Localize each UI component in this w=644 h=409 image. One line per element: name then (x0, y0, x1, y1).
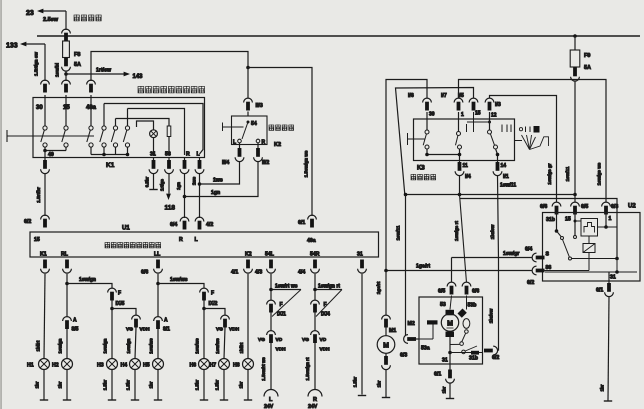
connector 6/6 at wiper 53b (462, 282, 471, 286)
connector above fuse F8 (62, 29, 71, 33)
svg-text:1bl/rt: 1bl/rt (36, 340, 41, 351)
wire 1bl/rt U1-K2 to lamp H8 (247, 274, 249, 359)
connector 4/2 at U1 terminal L (195, 217, 204, 221)
K1 pole 30 (44, 95, 46, 126)
svg-text:1.5br: 1.5br (215, 379, 220, 390)
svg-text:4/2: 4/2 (206, 222, 213, 228)
svg-text:A: A (164, 318, 168, 324)
hazard flasher switch label (CJK) (138, 86, 144, 93)
K3 label (CJK) (411, 174, 416, 180)
K3 actuator hook (407, 133, 409, 145)
wire 54R (314, 313, 316, 332)
wire U2 internal feed from I/4 net (460, 199, 617, 259)
svg-text:M: M (447, 321, 453, 328)
fuse F9 bottom connector (573, 68, 577, 77)
svg-text:L: L (197, 152, 201, 158)
svg-text:23: 23 (26, 10, 34, 17)
wire 53a from supply loop to wiper (405, 195, 407, 336)
svg-text:K2: K2 (245, 252, 252, 258)
svg-text:VDH: VDH (276, 347, 287, 353)
svg-text:6/2: 6/2 (492, 355, 499, 361)
wire K3 I/5 supply loop (396, 88, 576, 195)
svg-text:R: R (262, 140, 266, 146)
svg-text:31b: 31b (469, 356, 478, 362)
svg-text:1.5sw/rt ws: 1.5sw/rt ws (261, 357, 266, 381)
svg-text:1sw/bl: 1sw/bl (55, 63, 60, 77)
svg-text:1bl/rt: 1bl/rt (239, 342, 244, 353)
light switch label (CJK) (74, 15, 79, 21)
svg-text:1sw/ge rt: 1sw/ge rt (454, 221, 459, 241)
connector F IX/4 (311, 300, 320, 304)
junction M1 tap (384, 269, 388, 273)
washer switch contacts right of K3 (519, 128, 522, 131)
svg-text:F: F (118, 291, 121, 297)
wire 1sw/gn to lamp H4 (135, 328, 136, 359)
svg-text:I/3: I/3 (495, 102, 501, 108)
switch K2 box (247, 112, 249, 117)
wire 49a feed from bus to K1/K2/U1 (91, 52, 248, 82)
K3 pole I/4 (458, 112, 460, 132)
connector below U1 RL (65, 260, 69, 269)
branch wire 1sw/ws to F IX/2 (158, 284, 204, 289)
svg-text:6/1: 6/1 (298, 220, 305, 226)
svg-text:1: 1 (609, 216, 612, 222)
svg-text:49a: 49a (307, 238, 316, 244)
K2 terminal 54 (247, 121, 250, 124)
svg-text:1sw/ge gr: 1sw/ge gr (547, 163, 552, 184)
wire 1sw/gn U1-RL down (66, 274, 68, 317)
connector VG/VDH at H7 (221, 315, 230, 319)
K1 actuator hook (6, 130, 8, 142)
connector 6/6 below U1 LL (156, 260, 160, 269)
junction 54R branch (313, 288, 317, 292)
wire 54L (270, 313, 272, 332)
svg-text:L: L (195, 237, 199, 243)
junction LL branch (156, 282, 160, 286)
trailer socket L 24V (264, 390, 278, 397)
K1 internal wire to L (104, 104, 203, 155)
wire 1.5sw/gn-rt to trailer socket R (314, 343, 316, 389)
wire 1ws K1-L down (199, 174, 201, 218)
connector I/6 above K3 (423, 98, 432, 102)
svg-text:1sw/gn: 1sw/gn (103, 338, 108, 353)
U2 relay coil (583, 244, 595, 253)
svg-text:133: 133 (6, 43, 18, 50)
connector 4/4 below U1 54R (313, 260, 317, 269)
wire 1br below H2 (66, 369, 68, 399)
svg-text:58: 58 (165, 152, 171, 158)
K2 contact L (238, 139, 242, 143)
trailer socket R 24V (308, 390, 322, 397)
K1 pole 15 (65, 95, 67, 126)
U2 breaker output to terminal 1 wire (598, 226, 618, 228)
connector 6/3 at U2 (602, 202, 611, 206)
svg-text:4/1: 4/1 (231, 270, 238, 276)
connector below M1 (385, 353, 387, 356)
junction to H7 branch (202, 307, 206, 311)
lamp H5 (153, 359, 164, 370)
wire below F IX/2 (203, 301, 205, 359)
connector below U1 31 (360, 260, 364, 269)
branch wire to H4 (112, 309, 136, 316)
wire 1sw/gn to lamp H2 (66, 329, 68, 359)
svg-text:M1: M1 (389, 328, 396, 334)
svg-text:1.5br: 1.5br (195, 379, 200, 390)
wire I/4 to wiper 53b (459, 176, 461, 195)
junction node R/1gn (183, 195, 187, 199)
wire K3 I/7 to U2 6/3 (459, 80, 607, 203)
connector below K1 terminal L (199, 158, 201, 161)
junction to H4 branch (110, 307, 114, 311)
svg-text:1sw/gn: 1sw/gn (79, 277, 96, 283)
wiper park cam (463, 319, 470, 329)
svg-text:1.5br: 1.5br (126, 379, 131, 390)
wire 1.5br below H6 (203, 369, 205, 399)
svg-text:1sw/11: 1sw/11 (500, 183, 516, 189)
wire 0.5br from K1-31 (153, 174, 155, 189)
svg-text:24V: 24V (308, 404, 318, 409)
K1 wire 49 down (44, 151, 46, 161)
svg-text:VD: VD (276, 337, 283, 343)
lamp H1 (39, 359, 50, 370)
connector K1 terminal 49a (87, 80, 96, 84)
svg-text:6/5: 6/5 (581, 204, 588, 210)
connector VG/VDH at H4 (132, 315, 141, 319)
svg-text:F: F (324, 302, 327, 308)
svg-text:K2: K2 (274, 142, 281, 148)
svg-text:H6: H6 (190, 363, 197, 369)
K1 internal wire to R (128, 109, 185, 156)
svg-text:H4: H4 (121, 363, 128, 369)
svg-text:118: 118 (165, 205, 176, 212)
junction 53a branch (404, 193, 408, 197)
svg-text:U1: U1 (122, 226, 130, 232)
svg-text:H5: H5 (143, 363, 150, 369)
junction 54L branch (269, 288, 273, 292)
svg-text:I/4: I/4 (465, 174, 471, 180)
svg-text:1ws: 1ws (213, 178, 223, 184)
svg-text:143: 143 (133, 74, 144, 80)
connector VG/VD VDH on 54R (311, 331, 320, 335)
end of wire K1-31 (149, 189, 157, 191)
svg-text:H7: H7 (210, 363, 217, 369)
branch wire 1sw/rt-ws with splice diagonal (271, 289, 301, 291)
wiper motor M2 box (419, 297, 483, 364)
svg-text:5A: 5A (74, 62, 81, 68)
connector K1 terminal 15 (62, 80, 71, 84)
svg-text:1sw/11: 1sw/11 (565, 166, 570, 181)
wire 1.5br U1-31 to ground (361, 274, 363, 395)
wire U1-54R down (314, 274, 316, 301)
K1 internal wire to resistor (116, 119, 170, 127)
wire 1sw/gr U2-S to wiper 53 (452, 257, 533, 259)
wire 1br below H5 (157, 369, 159, 399)
junction F9 wire / K3 supply loop (573, 193, 577, 197)
svg-text:14: 14 (501, 163, 507, 169)
svg-text:1ws: 1ws (192, 176, 197, 185)
K2 blade (242, 122, 248, 139)
svg-text:M2: M2 (408, 321, 415, 327)
connector 6/2 at U1 terminal 15 (41, 215, 50, 219)
wire 1.5br below H7 (223, 369, 225, 399)
svg-text:8/5: 8/5 (72, 327, 79, 333)
svg-text:H1: H1 (27, 363, 34, 369)
connector I/7 above K3 (454, 98, 463, 102)
K3 stationary contacts mid (466, 124, 468, 132)
resistor in K1 (167, 126, 171, 137)
svg-text:H3: H3 (97, 363, 104, 369)
svg-text:1br/sw: 1br/sw (489, 308, 494, 323)
svg-text:VD: VD (320, 337, 327, 343)
svg-text:1sw/ws: 1sw/ws (149, 338, 154, 354)
svg-text:4/4: 4/4 (298, 270, 305, 276)
U2 31 output wire (608, 272, 610, 283)
svg-text:8/1: 8/1 (163, 327, 170, 333)
svg-text:IX/4: IX/4 (321, 312, 330, 318)
wire 2.5sw drop to fuse F8 (65, 11, 67, 30)
svg-text:12: 12 (491, 113, 497, 119)
svg-text:1br: 1br (149, 381, 154, 388)
connector A 8/1 on LL wire (154, 317, 163, 321)
connector below K1 terminal 58 (168, 158, 170, 161)
svg-text:K3: K3 (417, 166, 425, 172)
svg-text:K1: K1 (106, 162, 115, 169)
wire 1rt/sw to node 143 (66, 73, 126, 75)
connector 6/5 at U2 terminal 15 (571, 202, 580, 206)
connector VG/VD VDH on 54L (267, 331, 276, 335)
wire 1.5rt/gn-sw from 133 to K1 terminal 30 (44, 44, 46, 81)
K1 internal wire to pilot lamp (137, 121, 154, 130)
lamp H8 (243, 359, 254, 370)
svg-text:0.5br: 0.5br (145, 176, 150, 187)
branch wire 1sw/gn to F IX/5 (67, 284, 112, 289)
wire 1.5rt/br K1-49 to U1-15 (44, 174, 46, 216)
connector 4/1 below U1 K2 (246, 260, 250, 269)
U2 internal bus (572, 258, 618, 260)
K2 actuator hook (222, 123, 224, 132)
wire 1br below H8 (247, 369, 249, 399)
svg-text:VG: VG (126, 327, 133, 333)
svg-text:31: 31 (150, 152, 156, 158)
washer motor M1 (385, 328, 387, 336)
svg-text:31: 31 (442, 358, 448, 364)
wire 1.5sw/rt-ws to trailer socket L (270, 343, 272, 389)
connector 6/1 below wiper (449, 364, 451, 370)
svg-text:54: 54 (251, 121, 257, 127)
main bus wire 30 (37, 35, 640, 37)
switch K1 box (33, 98, 205, 158)
K1 pole 49a (90, 95, 92, 126)
svg-text:I/1: I/1 (503, 174, 509, 180)
lamp H7 (219, 359, 230, 370)
U2 31 bus (616, 259, 618, 273)
svg-text:S: S (546, 252, 550, 258)
K3 stationary contacts right (501, 125, 503, 133)
lamp H4 (130, 359, 141, 370)
svg-text:1rt/sw: 1rt/sw (96, 68, 112, 74)
svg-text:R: R (313, 397, 317, 403)
svg-text:VDH: VDH (140, 327, 151, 333)
svg-text:49: 49 (48, 152, 54, 158)
K1 pole 6 (127, 109, 129, 127)
wire 1sw/ws to lamp H5 (157, 329, 159, 359)
wire 1br/sw I/1 to wiper 31b (498, 176, 499, 351)
svg-text:1sw/ge ws: 1sw/ge ws (597, 162, 602, 185)
svg-text:1.5rt/gn sw: 1.5rt/gn sw (34, 52, 39, 76)
K1 pole 4 (103, 104, 105, 127)
switch K3 box (414, 119, 515, 161)
svg-text:1.5rt/br: 1.5rt/br (36, 187, 41, 203)
svg-text:L: L (269, 397, 273, 403)
svg-text:A: A (73, 318, 77, 324)
U1 name label (CJK) (105, 242, 110, 248)
svg-text:24V: 24V (264, 404, 274, 409)
svg-text:6/4: 6/4 (170, 222, 177, 228)
svg-text:R: R (186, 152, 190, 158)
svg-text:1sw/ws: 1sw/ws (170, 277, 188, 283)
svg-text:1sw/ws: 1sw/ws (215, 338, 220, 354)
svg-text:11: 11 (463, 163, 469, 169)
K3 pole I/1 (489, 112, 491, 122)
svg-text:VDH: VDH (320, 347, 331, 353)
K3 pole I/6 (426, 112, 428, 130)
connector 6/1 at U1 terminal 49a (308, 215, 317, 219)
svg-text:IX/1: IX/1 (277, 312, 286, 318)
svg-text:VG: VG (216, 327, 223, 333)
wire 1.5br below H4 (134, 369, 136, 399)
fuse F9 (570, 50, 580, 67)
svg-text:1rt/ge: 1rt/ge (160, 178, 165, 191)
svg-text:6/3: 6/3 (400, 353, 407, 359)
thermal breaker in U2 (581, 219, 598, 237)
svg-text:1ge/rt: 1ge/rt (376, 281, 381, 294)
svg-text:15: 15 (565, 217, 571, 223)
svg-text:I/5: I/5 (458, 93, 464, 99)
connector below K1 terminal 31 (153, 158, 155, 161)
svg-text:1gn: 1gn (176, 182, 181, 190)
svg-text:6/2: 6/2 (527, 280, 534, 286)
svg-text:30: 30 (36, 105, 43, 111)
connector below K1 terminal R (184, 158, 186, 161)
svg-text:1br: 1br (377, 380, 382, 387)
connector I/5 above K3 (469, 98, 478, 102)
svg-text:I/7: I/7 (441, 93, 447, 99)
svg-text:IX/5: IX/5 (116, 301, 125, 307)
svg-text:II/3: II/3 (256, 103, 263, 109)
U2 15 wire to contact and breaker (574, 213, 576, 236)
connector II/2 below K2 (257, 143, 259, 148)
svg-text:L: L (233, 140, 236, 146)
K1 internal 31 bus (91, 154, 128, 156)
junction node on F8 output (64, 72, 68, 76)
scan edge (0, 0, 1, 409)
branch wire to H7 (204, 309, 225, 316)
connector A 8/5 on RL wire (63, 317, 72, 321)
junction node L/1ws (198, 182, 202, 186)
svg-text:IX/2: IX/2 (209, 301, 218, 307)
U2 31b wire to contact (556, 213, 558, 232)
svg-text:II/4: II/4 (222, 160, 229, 166)
svg-text:4/3: 4/3 (255, 270, 262, 276)
wire U1-54L down (270, 274, 272, 301)
flasher unit U1 box (30, 232, 379, 257)
K1 pole 5 (115, 119, 117, 127)
connector II/3 above K2 (247, 68, 249, 99)
svg-text:1br: 1br (600, 384, 605, 391)
wire 1br below H1 (43, 369, 45, 399)
wire 1gn to K2 II/2 (185, 162, 259, 197)
wiper 31b pin (471, 351, 479, 355)
connector I/3 above K3 (485, 98, 494, 102)
svg-text:53b: 53b (468, 303, 477, 309)
svg-text:15: 15 (63, 105, 70, 111)
lamp H6 (199, 359, 210, 370)
junction node 49a line (246, 66, 250, 70)
svg-text:1.5sw/gn ws: 1.5sw/gn ws (304, 150, 309, 177)
svg-text:H2: H2 (52, 363, 59, 369)
svg-text:1sw/11: 1sw/11 (396, 225, 401, 240)
junction I/4 wire (458, 193, 462, 197)
wiper field block (427, 320, 438, 324)
U2 86 internal wire (544, 270, 590, 272)
svg-text:K1: K1 (40, 252, 47, 258)
svg-text:1.5sw/gn rt: 1.5sw/gn rt (305, 357, 310, 380)
connector below U1 K1 (43, 260, 47, 269)
wiper park contact (462, 333, 466, 341)
wire 1sw/11 from F9 to U2 (574, 81, 576, 202)
svg-text:53: 53 (440, 302, 446, 308)
svg-text:6/5: 6/5 (438, 289, 445, 295)
K1 poles 30/15 link to 49 (44, 147, 46, 151)
svg-text:1sw/gr: 1sw/gr (503, 251, 519, 257)
svg-text:F: F (280, 302, 283, 308)
svg-text:H8: H8 (233, 363, 240, 369)
svg-text:53a: 53a (421, 346, 430, 352)
svg-text:1.5br: 1.5br (103, 379, 108, 390)
svg-text:VG: VG (302, 337, 309, 343)
connector 6/4 at U1 terminal R (180, 217, 189, 221)
svg-text:1sw/ws: 1sw/ws (195, 338, 200, 354)
wiper 53a internal wire (419, 338, 433, 340)
connector F IX/2 (200, 288, 209, 292)
pilot lamp in K1 (150, 130, 158, 138)
U2 switch blade (563, 240, 570, 257)
svg-text:6/1: 6/1 (434, 372, 441, 378)
wiper internal 31 bus (449, 337, 451, 364)
lamp H3 (107, 359, 118, 370)
svg-text:RL: RL (61, 252, 69, 258)
fuse F9 tap junction on bus (573, 34, 577, 38)
svg-text:5A: 5A (584, 65, 591, 71)
svg-text:6/4: 6/4 (525, 247, 532, 253)
svg-text:1: 1 (461, 112, 464, 118)
svg-text:M: M (383, 343, 389, 350)
junction dots K1 bus (102, 153, 106, 157)
connector 6/2 at wiper 31b output (484, 349, 493, 353)
K3 bottom bus (426, 149, 428, 155)
svg-text:1sw/rt ws: 1sw/rt ws (275, 284, 298, 290)
svg-text:2.5sw: 2.5sw (43, 17, 59, 23)
fuse F8 bottom connector (64, 58, 68, 67)
svg-text:VDH: VDH (229, 327, 240, 333)
svg-text:1gn: 1gn (211, 190, 220, 196)
svg-text:6/1: 6/1 (596, 288, 603, 294)
svg-text:F: F (211, 291, 214, 297)
K2 label (CJK) (269, 125, 274, 131)
svg-text:1br: 1br (35, 381, 40, 388)
svg-text:1sw/gn rt: 1sw/gn rt (318, 284, 340, 290)
svg-text:31: 31 (610, 275, 616, 281)
